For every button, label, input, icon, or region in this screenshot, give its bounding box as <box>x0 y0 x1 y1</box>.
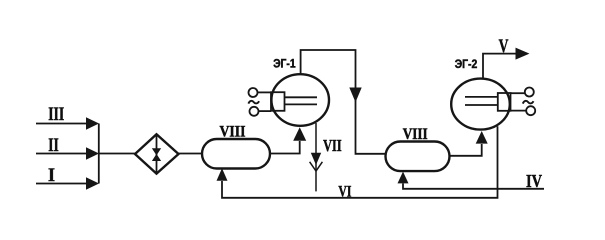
heater EG-2 element body <box>498 93 511 111</box>
filter F1 diamond <box>135 134 179 173</box>
terminal lead bottom EG-2 <box>511 110 527 112</box>
terminal circle top EG-1 <box>249 88 258 97</box>
separator VIII-1 capsule <box>202 139 270 169</box>
wire separator VIII-1 to heater EG-1 <box>270 141 300 154</box>
heater EG-1 circle <box>271 74 329 126</box>
wire heater EG-1 top outlet <box>301 50 386 154</box>
wire feed II <box>36 153 87 155</box>
heater EG-1 electrode top <box>285 96 318 98</box>
arrow into heater EG-1 <box>293 127 306 140</box>
wire separator VIII-2 to heater EG-2 <box>450 144 482 156</box>
AC squiggle EG-1 <box>248 101 259 104</box>
arrow down on transfer line <box>349 88 361 103</box>
wire drain VII <box>315 123 317 191</box>
svg-text:V: V <box>499 36 509 57</box>
wire feed I <box>36 183 87 185</box>
wire feed IV <box>403 184 544 189</box>
svg-text:VII: VII <box>323 136 342 155</box>
svg-text:IV: IV <box>526 171 542 191</box>
terminal circle bottom EG-2 <box>526 106 535 115</box>
wire recycle VI <box>222 126 498 198</box>
arrow outlet V <box>516 48 530 60</box>
arrow into heater EG-2 <box>476 131 488 144</box>
separator VIII-2 capsule <box>386 142 450 172</box>
svg-text:VIII: VIII <box>403 126 428 143</box>
terminal lead bottom EG-1 <box>258 110 271 112</box>
svg-text:ЭГ-1: ЭГ-1 <box>273 57 296 71</box>
svg-text:III: III <box>48 104 64 125</box>
arrow feed III <box>86 117 99 129</box>
heater EG-1 element body <box>271 92 285 111</box>
svg-text:VI: VI <box>338 184 351 201</box>
heater EG-2 electrode bottom <box>465 104 498 106</box>
wire filter to separator VIII-1 <box>179 153 204 155</box>
wire collector to filter <box>99 153 135 155</box>
arrow recycle VI into separator VIII-1 <box>217 168 228 180</box>
arrow drain VII <box>311 153 321 165</box>
wire feed III <box>36 123 87 125</box>
vent chevron VII <box>310 162 323 171</box>
filter F1 axis <box>156 135 158 173</box>
AC squiggle EG-2 <box>523 101 534 104</box>
arrow feed IV into separator VIII-2 <box>398 172 409 184</box>
terminal lead top EG-2 <box>511 92 526 94</box>
wire heater EG-2 top outlet V <box>483 54 516 78</box>
terminal circle bottom EG-1 <box>250 107 259 116</box>
heater EG-2 electrode top <box>465 96 498 98</box>
svg-text:ЭГ-2: ЭГ-2 <box>455 57 478 71</box>
terminal lead top EG-1 <box>257 91 271 93</box>
wire collector <box>98 124 100 184</box>
terminal circle top EG-2 <box>525 88 534 97</box>
heater EG-2 circle <box>451 79 510 130</box>
filter F1 hourglass <box>153 149 161 161</box>
svg-text:VIII: VIII <box>220 124 246 141</box>
heater EG-1 electrode bottom <box>285 103 318 105</box>
arrow feed I <box>86 177 99 189</box>
arrow feed II <box>86 147 99 159</box>
